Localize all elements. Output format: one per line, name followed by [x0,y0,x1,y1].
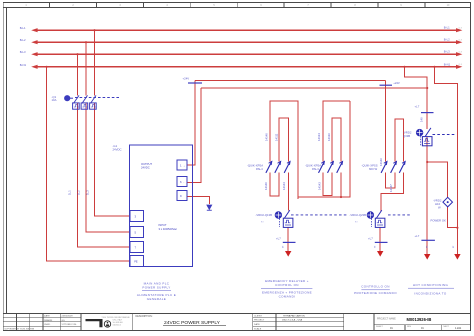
motor breaker Q-VRD3 right column [416,128,456,146]
svg-text:-VRD2-Q13B: -VRD2-Q13B [256,213,273,217]
svg-text:B-N1: B-N1 [444,62,451,66]
wire N tap B [435,67,458,256]
bus destination arrows right [456,28,462,69]
wire group2 top [323,101,350,162]
net marker +24V right end [380,81,400,85]
function text blocks bottom [137,279,454,301]
svg-text:COPYRIGHT BY T.S.M. SISTEMI: COPYRIGHT BY T.S.M. SISTEMI [4,329,34,331]
svg-text:M0013926-IB: M0013926-IB [407,317,432,322]
svg-text:B-L1: B-L1 [20,26,26,30]
svg-text:DATE: DATE [254,323,260,326]
contact K1 pole2 [275,161,281,173]
bus source arrows left [31,28,37,69]
project cell [376,317,462,330]
contact K1 pole3 [284,161,290,173]
text control function [354,285,397,295]
svg-text:+24V: +24V [393,81,400,85]
wire group1 contact2 riser [279,118,288,162]
wire group2 bottom u [323,173,332,196]
wire group1 bottom u [270,173,279,196]
svg-text:VITTORIO VDL: VITTORIO VDL [62,324,78,326]
wire Q1 out L1 to PSU [95,103,131,216]
svg-text:14140: 14140 [264,133,268,141]
svg-text:PAL4: PAL4 [312,167,319,171]
svg-text:INCONDIZIONA TO: INCONDIZIONA TO [414,291,447,295]
svg-text:B-L1: B-L1 [444,26,450,30]
svg-text:600 W: 600 W [369,167,377,171]
PSU terminal pin numbers [134,164,185,264]
svg-text:PAL4: PAL4 [256,167,263,171]
svg-text:DRAWN: DRAWN [44,319,53,322]
wire PSU PE to earth [187,197,209,204]
svg-text:1L3: 1L3 [86,190,90,195]
contact K2 pole1 [319,161,325,173]
wire group3 out to Q-VRD2 [381,173,404,211]
svg-text:1.2A1: 1.2A1 [455,327,462,330]
svg-text:24/06/2009: 24/06/2009 [62,316,74,318]
wire group3 contact2 riser [395,119,404,162]
svg-text:W: W [438,206,441,210]
svg-text:24VDC: 24VDC [113,147,122,151]
text hot conditioning [408,283,454,295]
wire PSU +24V output riser [187,80,195,165]
svg-text:1L1: 1L1 [68,190,72,195]
net marker +24V near PSU [183,77,203,83]
net marker +L7 right column upper [415,105,434,113]
svg-text:GS: GS [62,320,66,322]
svg-text:PROJECT NAME: PROJECT NAME [377,317,396,320]
svg-text:B-L3: B-L3 [20,50,26,54]
svg-text:DATE: DATE [44,315,50,318]
svg-text:OUTPUT: OUTPUT [141,162,152,166]
contact K2 pole3 [337,161,343,173]
wire group3 bottom u [385,173,395,188]
contact K3 pole3 [399,161,405,173]
svg-text:POWER OK: POWER OK [431,219,447,223]
svg-text:CONTROL ON: CONTROL ON [275,283,299,287]
circuit breaker Q1 [65,95,121,109]
svg-text:TETRA PAK CARTON: TETRA PAK CARTON [283,314,305,317]
svg-text:NEXT: NEXT [444,326,450,328]
wire Q1 out L3 to PSU [78,103,131,247]
wire branch to H10 lamp [427,162,448,197]
wire group2 contact2 riser [332,118,341,162]
svg-text:SHEET: SHEET [376,326,383,328]
wire Q-VRD1 output [287,227,289,253]
indicator lamp H10 [443,197,453,207]
ground earth arrow at PSU [206,205,212,211]
svg-text:POWER SUPPLY: POWER SUPPLY [142,285,170,289]
wire group1 out to Q-VRD1 [288,173,290,211]
svg-text:140: 140 [420,117,424,122]
contact K2 pole2 [328,161,334,173]
wire bus L3 [37,53,456,55]
svg-text:+L7: +L7 [276,237,281,241]
description cell [136,315,227,326]
svg-text:SCALE: SCALE [254,327,262,330]
svg-text:+L7: +L7 [415,105,420,109]
power supply G1 box [130,145,193,267]
svg-text:PE: PE [134,260,138,264]
svg-text:+L7: +L7 [368,237,373,241]
svg-text:1L2: 1L2 [77,190,81,195]
wire bus L2 [37,41,456,43]
contact K3 pole1 [381,161,387,173]
svg-text:14134: 14134 [317,133,321,141]
wire group1 top [270,101,298,199]
wire group2 out [340,173,342,197]
svg-text:18ton T.o.S.A. - USA: 18ton T.o.S.A. - USA [282,319,303,322]
company logo [86,316,131,327]
motor breaker Q-VRD2 [367,210,412,227]
text emergency function [261,279,312,298]
wire group3 feed from +24 rail [384,80,386,161]
svg-text:14136: 14136 [327,133,331,141]
title block texts [4,315,77,331]
terminal bar below Q-VRD2 [368,237,388,249]
motor breaker Q-VRD1 [275,210,348,227]
svg-text:14147: 14147 [389,184,393,192]
svg-text:COMANDI: COMANDI [279,294,296,298]
svg-text:10A: 10A [52,98,57,102]
wire N tap A [405,67,428,88]
wire drop L2 to Q1 [85,42,87,95]
wire 0V rail [201,87,427,89]
svg-text:DESCRIPTION:: DESCRIPTION: [136,315,153,318]
svg-text:+L7: +L7 [415,234,420,238]
svg-text:CLIENT: CLIENT [254,315,262,317]
svg-text:GENERALE: GENERALE [147,297,166,301]
PSU internal labels [141,162,178,231]
wire H10 lamp bottom [448,207,458,228]
svg-text:REV: REV [407,326,412,328]
svg-text:B-L2: B-L2 [444,38,450,42]
svg-text:T.S.M. TECNOLOGIE MECCANICHE: T.S.M. TECNOLOGIE MECCANICHE [102,316,131,319]
wire right column main [426,88,428,129]
svg-text:14143: 14143 [282,182,286,190]
wire PSU 0V output riser [187,88,201,183]
wire drop L3 to Q1 [77,54,79,95]
wire bus N [37,66,456,68]
wire drop L1 to Q1 [94,30,96,95]
terminal bar below Q-VRD1 [276,237,296,249]
svg-text:B-L2: B-L2 [20,38,26,42]
wire Q-VRD2 output [379,227,381,253]
svg-text:24VDC: 24VDC [141,166,150,170]
frame column numbers [25,4,450,7]
wire PE drop to PSU [47,67,130,261]
client cell [254,314,305,330]
svg-text:3 x 400/520Vac: 3 x 400/520Vac [159,227,178,231]
svg-text:14111: 14111 [274,133,278,141]
svg-text:INPUT: INPUT [159,223,167,227]
svg-text:B-N1: B-N1 [20,63,27,67]
svg-text:CHKD: CHKD [44,324,51,326]
wire bus L1 [37,29,456,31]
title block grid [3,313,470,330]
contact K3 pole2 [391,161,397,173]
wire Q1 out L2 to PSU [86,103,130,232]
svg-text:B-L3: B-L3 [444,50,450,54]
svg-text:CONTROLLO ON: CONTROLLO ON [361,285,390,289]
svg-text:PROJECT: PROJECT [254,320,265,322]
contact K1 pole1 [266,161,272,173]
sheet reference arrows bottom [285,251,461,260]
terminal bar right column [415,234,454,249]
svg-text:info@tsm.it: info@tsm.it [113,324,122,327]
text PSU function [137,282,176,301]
svg-text:14143: 14143 [318,182,322,190]
svg-text:+24V: +24V [183,77,190,81]
svg-text:14140: 14140 [264,182,268,190]
svg-text:HOT CONDITIONING: HOT CONDITIONING [413,283,449,287]
wire +24V rail [195,79,386,81]
svg-text:PROTEZIONE COMANDO: PROTEZIONE COMANDO [354,291,397,295]
svg-text:14146: 14146 [379,158,383,166]
wire number labels rotated [68,117,424,195]
svg-text:Q33B: Q33B [403,134,410,138]
svg-text:-VRD2-Q23B: -VRD2-Q23B [350,213,367,217]
wire link group1-group2 [298,101,350,197]
